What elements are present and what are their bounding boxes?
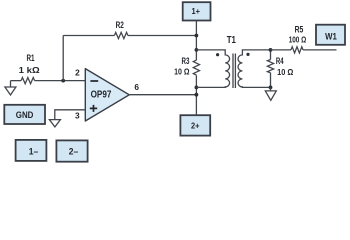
node: secondary bottom (269, 86, 273, 90)
svg-text:T1: T1 (227, 35, 237, 46)
T1 secondary phase dot (246, 53, 249, 56)
wire: feedback riser (62, 36, 64, 81)
resistor R5 (291, 47, 303, 53)
terminal box 1- (16, 140, 47, 161)
T1 secondary winding (238, 50, 271, 88)
node: R2 joins (195, 34, 199, 38)
svg-text:R5: R5 (295, 23, 304, 34)
T1 primary phase dot (216, 53, 219, 56)
pin 3 plus sign (90, 105, 97, 112)
wire: main vertical node (1+ / R2 / R3 / T1 / output / 2+) (195, 21, 197, 116)
terminal box W1 (316, 25, 345, 45)
resistor R4 (267, 60, 273, 73)
svg-text:100 Ω: 100 Ω (289, 35, 307, 45)
wire: R2 right lead to node (128, 35, 196, 37)
terminal box 1+ (183, 2, 211, 20)
resistor R2 (114, 32, 127, 38)
wire: op-amp output to node (129, 94, 196, 96)
ground (secondary) (265, 87, 276, 100)
svg-text:3: 3 (75, 111, 80, 121)
svg-text:1+: 1+ (192, 6, 201, 16)
svg-text:W1: W1 (325, 31, 337, 41)
resistor R1 (21, 78, 35, 84)
svg-text:R1: R1 (26, 52, 34, 63)
node: op-amp output joins (195, 93, 199, 97)
node: T1 primary bottom (195, 86, 199, 90)
node: T1 primary top (195, 48, 199, 52)
svg-text:6: 6 (134, 82, 139, 92)
pin 2 minus sign (90, 80, 98, 82)
ground (op-amp pin 3) (49, 120, 60, 127)
wire: secondary node vertical (270, 50, 272, 88)
ground (below R1 left end) (5, 81, 16, 95)
svg-text:GND: GND (16, 110, 34, 120)
svg-text:1 kΩ: 1 kΩ (19, 65, 40, 75)
wire: R2 left lead (63, 35, 114, 37)
svg-text:R4: R4 (276, 55, 284, 66)
wire: pin 3 to ground (55, 110, 86, 120)
terminal box GND (4, 105, 45, 124)
transformer T1 (196, 35, 270, 88)
svg-text:R3: R3 (182, 55, 190, 66)
T1 primary winding (196, 50, 229, 88)
svg-text:1–: 1– (29, 146, 39, 156)
wire: R1 left lead (11, 80, 22, 82)
node: secondary top (269, 48, 273, 52)
svg-text:2–: 2– (69, 147, 79, 157)
svg-text:OP97: OP97 (91, 89, 112, 101)
svg-text:2: 2 (75, 68, 80, 78)
svg-text:2+: 2+ (191, 121, 200, 131)
terminal box 2+ (180, 115, 210, 135)
svg-text:10 Ω: 10 Ω (277, 67, 293, 77)
terminal box 2- (56, 140, 87, 161)
svg-text:R2: R2 (116, 19, 124, 30)
wire: R1 to op-amp pin 2 (35, 80, 86, 82)
T1 core (233, 54, 235, 89)
wire: R5 left lead (271, 49, 292, 51)
wire: R5 to W1 (303, 49, 337, 51)
svg-text:10 Ω: 10 Ω (174, 67, 189, 77)
resistor R3 (193, 60, 199, 75)
op-amp U1 OP97 (75, 68, 139, 122)
node: junction R1/R2 riser (61, 79, 65, 83)
